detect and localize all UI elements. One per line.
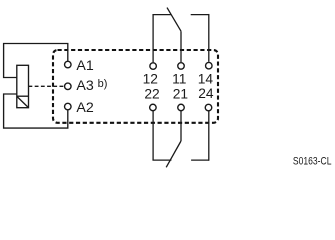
wire A2 to coil bottom — [4, 94, 68, 128]
wire terminal 24 — [208, 111, 210, 161]
terminal 24 — [205, 104, 212, 111]
svg-text:11: 11 — [172, 71, 186, 86]
svg-text:22: 22 — [144, 87, 159, 102]
svg-text:14: 14 — [198, 71, 214, 86]
wire A1 to coil top — [4, 44, 68, 78]
terminal A3 — [65, 83, 72, 90]
svg-text:b): b) — [98, 78, 108, 90]
wire terminal 12 to NC bar — [152, 15, 154, 63]
wire terminal 14 — [208, 14, 210, 62]
coil diagonal mark — [17, 97, 28, 108]
svg-text:A1: A1 — [76, 58, 93, 74]
terminal A2 — [65, 103, 72, 110]
svg-text:A2: A2 — [76, 100, 93, 116]
switch arm top contact — [167, 8, 181, 32]
svg-text:21: 21 — [173, 87, 188, 102]
dashed wire coil to A3 — [29, 85, 64, 87]
relay enclosure dashed box — [53, 50, 218, 123]
terminal A1 — [65, 61, 72, 68]
terminal 22 — [150, 104, 157, 111]
terminal 11 — [178, 63, 185, 70]
terminal 21 — [178, 104, 185, 111]
NO fixed contact bar top — [191, 14, 209, 16]
svg-text:12: 12 — [143, 71, 158, 86]
wire terminal 22 to NC bar — [152, 111, 154, 160]
wire terminal 21 common — [180, 111, 182, 141]
svg-text:A3: A3 — [76, 78, 93, 94]
NO fixed contact bar bottom — [191, 159, 209, 161]
svg-text:S0163-CL: S0163-CL — [293, 156, 332, 168]
coil divider line — [17, 95, 29, 97]
terminal 12 — [150, 63, 157, 70]
terminal 14 — [206, 62, 213, 69]
coil K1 body — [17, 65, 29, 107]
NC fixed contact bar top — [152, 14, 171, 16]
NC fixed contact bar bottom — [152, 159, 171, 161]
svg-text:24: 24 — [198, 86, 214, 101]
wire terminal 11 common — [180, 31, 182, 62]
switch arm bottom contact — [166, 141, 181, 167]
